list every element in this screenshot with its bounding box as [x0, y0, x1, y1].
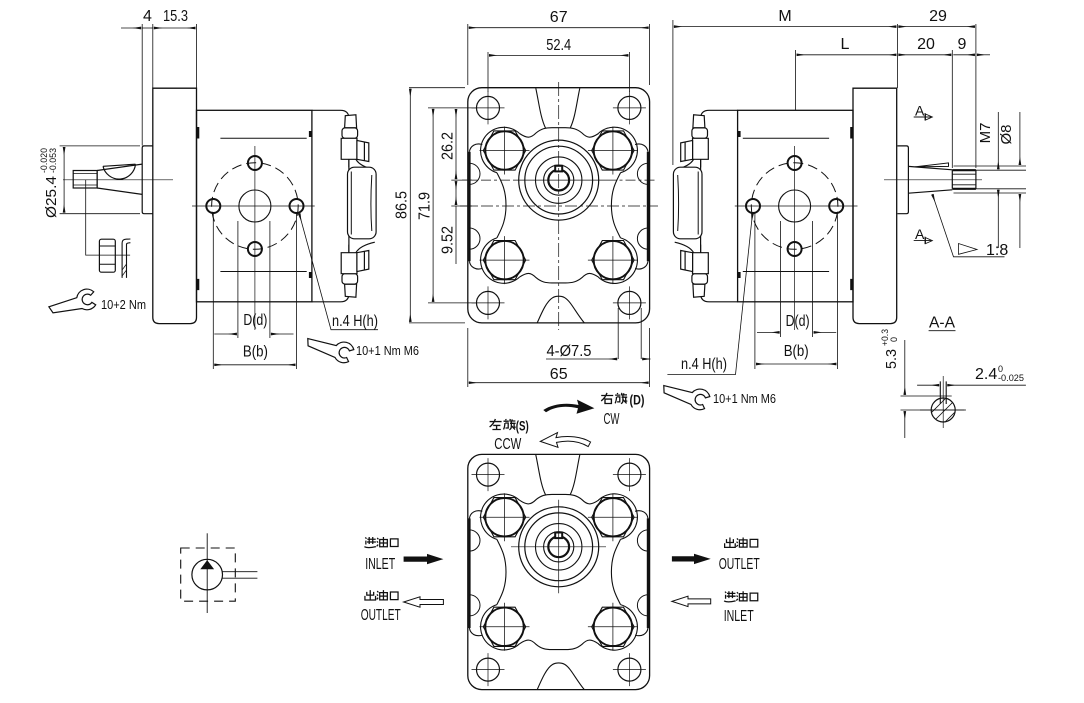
svg-text:A-A: A-A — [929, 315, 955, 332]
svg-text:4-Ø7.5: 4-Ø7.5 — [547, 343, 592, 360]
dimension 71.9 — [428, 108, 477, 303]
inlet label left — [364, 537, 398, 548]
D(d) dimension right view — [755, 212, 838, 369]
svg-text:INLET: INLET — [365, 556, 395, 573]
taper 1:8 callout — [932, 194, 1004, 256]
outlet label left — [365, 590, 398, 600]
shaft nut — [99, 239, 115, 272]
svg-text:67: 67 — [550, 9, 568, 26]
dimension M — [673, 20, 898, 165]
keyway slot — [940, 381, 946, 404]
dimension 52.4 — [488, 52, 629, 92]
svg-text:26.2: 26.2 — [440, 132, 457, 160]
svg-text:65: 65 — [550, 366, 568, 383]
left side view shared geometry — [153, 88, 376, 330]
svg-text:52.4: 52.4 — [546, 37, 571, 54]
svg-text:L: L — [841, 36, 850, 53]
dimension 86.5 — [409, 88, 465, 323]
M7 / Ø8 extension lines — [954, 112, 1027, 248]
svg-text:A: A — [915, 226, 925, 242]
svg-text:29: 29 — [929, 8, 947, 25]
svg-text:D(d): D(d) — [243, 312, 267, 329]
svg-text:OUTLET: OUTLET — [361, 607, 401, 624]
dimension 65 — [468, 328, 650, 387]
5.3 dimension — [901, 340, 965, 438]
wrench icon 3 — [661, 384, 711, 411]
outlet arrow right (filled) — [672, 554, 711, 564]
leader from shaft to nut — [86, 180, 130, 255]
pump circle — [192, 559, 223, 590]
dimension Ø25.4 with tolerance — [60, 146, 140, 214]
svg-text:INLET: INLET — [724, 608, 754, 625]
dimension 4 — [121, 24, 197, 146]
svg-text:(D): (D) — [630, 392, 645, 408]
vertical centerline — [558, 82, 560, 330]
inlet arrow right (outline) — [672, 596, 711, 606]
svg-text:CW: CW — [604, 411, 621, 428]
svg-text:OUTLET: OUTLET — [719, 556, 760, 573]
svg-text:n.4 H(h): n.4 H(h) — [332, 313, 378, 330]
svg-text:CCW: CCW — [494, 436, 522, 453]
svg-text:86.5: 86.5 — [394, 191, 411, 219]
svg-text:-0.053: -0.053 — [48, 148, 58, 173]
pilot boss — [142, 146, 153, 214]
outlet arrow left (outline) — [404, 597, 444, 607]
svg-text:10+2 Nm: 10+2 Nm — [101, 298, 146, 312]
2.4 dimension — [917, 384, 1026, 386]
shaft centerline right view — [884, 179, 982, 181]
dimension 9 — [953, 54, 990, 56]
shaft section circle with hatch — [920, 376, 966, 440]
threaded shaft end — [73, 171, 97, 189]
threaded end — [952, 170, 976, 189]
flow triangle — [201, 561, 213, 569]
woodruff key — [103, 164, 136, 179]
n.4 H(h) leader right view — [667, 214, 752, 375]
section marker A top — [914, 113, 933, 121]
inlet arrow left (filled) — [404, 554, 444, 564]
svg-text:-0.025: -0.025 — [998, 373, 1024, 383]
shaft horizontal centerline — [516, 179, 607, 181]
dimension 20 — [898, 50, 952, 168]
dimension 4-Ø7.5 — [546, 308, 650, 359]
svg-text:71.9: 71.9 — [417, 192, 434, 220]
dimension 67 — [468, 24, 650, 85]
wrench icon 2 — [305, 337, 355, 364]
thread lines — [73, 174, 97, 185]
tapered shaft right — [908, 166, 952, 193]
svg-text:A: A — [915, 103, 925, 119]
dimension 9.52 — [451, 181, 475, 264]
svg-text:1:8: 1:8 — [986, 242, 1008, 259]
key slot wedge — [915, 163, 949, 167]
body horizontal centerline (dash-dot) — [460, 205, 658, 207]
inlet label right — [724, 591, 758, 602]
svg-text:10+1 Nm M6: 10+1 Nm M6 — [356, 344, 419, 358]
svg-text:9: 9 — [958, 36, 967, 53]
svg-text:10+1 Nm M6: 10+1 Nm M6 — [713, 392, 776, 406]
hydraulic pump symbol — [181, 533, 258, 613]
right side view shared geometry — [673, 88, 896, 330]
dimension 26.2 — [451, 109, 475, 180]
svg-text:M7: M7 — [977, 123, 994, 144]
svg-text:n.4 H(h): n.4 H(h) — [681, 356, 727, 373]
bottom front view shared geometry — [468, 454, 650, 689]
svg-text:Ø8: Ø8 — [998, 124, 1015, 144]
rotation label CW — [543, 400, 594, 414]
svg-text:B(b): B(b) — [784, 343, 809, 360]
dimension L — [796, 50, 897, 110]
symbol centerline — [206, 533, 208, 613]
section marker A bottom — [914, 237, 933, 245]
outlet label right — [725, 537, 758, 547]
n.4 H(h) leader left view — [299, 214, 378, 330]
rotation label CCW — [540, 433, 590, 448]
crosshair bottom view shaft — [511, 500, 606, 594]
pilot boss right — [897, 146, 908, 214]
svg-text:2.4: 2.4 — [975, 366, 997, 383]
svg-text:5.3: 5.3 — [883, 349, 900, 369]
svg-text:0: 0 — [889, 337, 899, 342]
dimension 29 — [898, 24, 976, 168]
svg-text:Ø25.4: Ø25.4 — [43, 176, 60, 218]
svg-text:(S): (S) — [516, 418, 529, 434]
svg-text:9.52: 9.52 — [440, 226, 457, 254]
wrench icon 1 — [48, 286, 99, 324]
front view shared geometry — [468, 88, 650, 323]
drive shaft lines — [223, 572, 258, 579]
shaft centerline left view — [63, 179, 173, 181]
svg-text:20: 20 — [917, 36, 935, 53]
svg-text:D(d): D(d) — [786, 313, 810, 330]
svg-text:B(b): B(b) — [243, 344, 268, 361]
tapered shaft section — [97, 164, 142, 194]
svg-text:15.3: 15.3 — [163, 8, 188, 25]
lock washer — [122, 239, 130, 278]
D(d) dimension left view — [213, 212, 296, 369]
svg-text:4: 4 — [143, 8, 152, 25]
dashed enclosure — [181, 548, 236, 601]
svg-text:M: M — [778, 8, 791, 25]
